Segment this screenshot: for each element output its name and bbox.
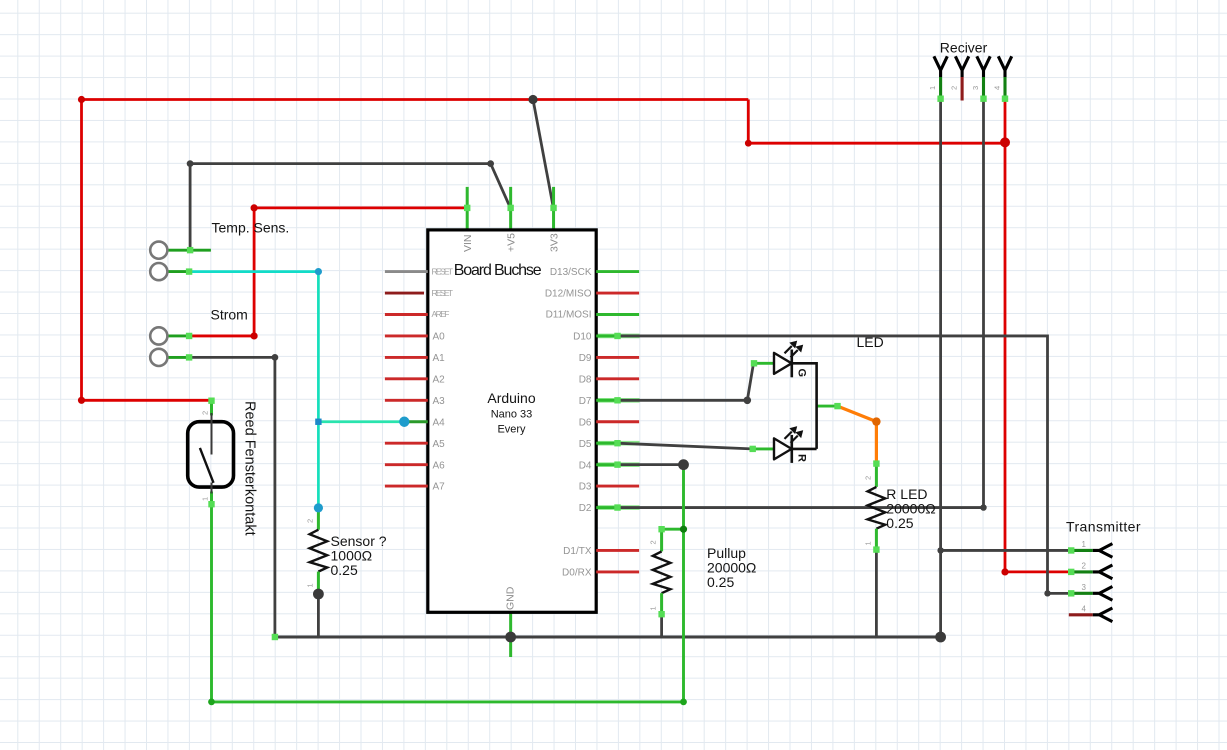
resistor R3 R LED 20000 ohm — [864, 463, 886, 551]
wire dark D7 to LED G anode — [596, 398, 639, 403]
svg-text:1: 1 — [649, 606, 658, 610]
transmitter pin 4 — [1069, 613, 1093, 616]
pin GND bottom stub — [509, 612, 512, 657]
wire dark D4 to junction — [596, 462, 639, 467]
connector J2 Strom circle 2 — [150, 349, 191, 366]
svg-text:Nano 33: Nano 33 — [491, 409, 533, 421]
connector J3 Reciver header — [928, 39, 1012, 100]
junction orange dot R LED corner — [872, 417, 880, 425]
junction dark dot ground bus at GND — [505, 632, 516, 643]
junction dark dot at +V5 wire corner — [487, 160, 494, 167]
junction green dot reed bottom corner — [208, 699, 215, 706]
svg-text:D6: D6 — [579, 417, 592, 428]
svg-text:D4: D4 — [579, 460, 592, 471]
svg-text:A7: A7 — [433, 482, 446, 493]
pin D6 stub — [596, 420, 639, 423]
wire dark 3V3 slant from red net — [533, 100, 553, 208]
svg-text:1: 1 — [928, 86, 937, 90]
wire dark D10 to transmitter pin3 — [596, 334, 639, 339]
pin D7 stub (connected) — [596, 399, 619, 402]
transmitter pin 3 — [1068, 592, 1093, 595]
svg-text:Every: Every — [497, 424, 526, 436]
junction dark dot on red net at 3V3 branch — [528, 95, 537, 104]
reed lead top — [211, 413, 213, 455]
pin 2 reed top — [210, 399, 213, 416]
wire cyan Temp.Sens pin2 horizontal — [191, 270, 319, 273]
svg-text:1: 1 — [1082, 540, 1087, 549]
pin AREF stub — [385, 313, 428, 316]
pin A0 stub — [385, 335, 428, 338]
svg-text:A0: A0 — [433, 332, 446, 343]
svg-text:A5: A5 — [433, 439, 446, 450]
wire dark receiver pin1 vertical to ground bus — [939, 100, 942, 637]
svg-text:Pullup: Pullup — [707, 545, 746, 561]
svg-text:0.25: 0.25 — [331, 562, 358, 578]
op board U1 Arduino Nano 33 Every (Board Buchse) — [428, 187, 596, 657]
svg-text:20000Ω: 20000Ω — [707, 559, 756, 575]
reed body — [188, 422, 234, 487]
wire cyan branch to A4 pin — [318, 420, 404, 423]
pin A3 stub — [385, 399, 428, 402]
receiver pin 1 fork — [934, 56, 947, 77]
pin D9 stub — [596, 356, 639, 359]
wire dark D2 to receiver pin3 — [596, 505, 639, 510]
wire green LED cathode branch — [817, 405, 838, 408]
svg-text:2: 2 — [864, 476, 873, 480]
pin RESET left stub (dark red) — [385, 292, 424, 295]
wire red bottom-left to reed switch pin 2 — [82, 399, 212, 402]
pin RESET left stub (gray) — [385, 270, 428, 273]
svg-text:1000Ω: 1000Ω — [331, 548, 373, 564]
svg-text:Strom: Strom — [211, 307, 248, 323]
pin D1/TX stub — [596, 549, 639, 552]
wire orange LED to R LED resistor — [838, 406, 877, 465]
svg-text:D3: D3 — [579, 482, 592, 493]
svg-text:D10: D10 — [573, 332, 592, 343]
svg-text:Board Buchse: Board Buchse — [454, 262, 542, 279]
svg-text:A6: A6 — [433, 460, 446, 471]
svg-text:1: 1 — [306, 583, 315, 587]
svg-text:1: 1 — [864, 541, 873, 545]
connector J4 Transmitter header — [1066, 519, 1141, 622]
pin 3V3 top stub — [552, 187, 555, 230]
svg-text:3: 3 — [971, 86, 980, 90]
svg-text:D0/RX: D0/RX — [562, 568, 592, 579]
pin A6 stub — [385, 463, 428, 466]
wire red top right jog down — [748, 100, 1005, 144]
junction cyan dot A4 pin — [399, 417, 409, 427]
pin D12/MISO stub — [596, 292, 639, 295]
pin A2 stub — [385, 377, 428, 380]
resistor R1 Sensor ? 1000 ohm — [306, 508, 328, 594]
pin D2 stub (connected) — [596, 506, 619, 509]
pin D0/RX stub — [596, 570, 639, 573]
svg-text:Transmitter: Transmitter — [1066, 519, 1141, 535]
connector J1 Temp. Sens. circle 1 — [150, 242, 211, 259]
node bright green terminal nubs — [186, 96, 1075, 641]
wire red Strom to VIN pin — [191, 208, 467, 336]
wire red VIN net left vertical — [80, 100, 83, 401]
junction dark dot D4 green net — [678, 459, 689, 470]
junction red dot transmitter pin2 corner — [1001, 568, 1008, 575]
svg-text:Arduino: Arduino — [487, 390, 535, 406]
resistor R2 Pullup 20000 ohm — [649, 528, 671, 616]
transmitter pin 2 — [1068, 570, 1093, 573]
junction dark dot D2 receiver pin3 — [980, 504, 986, 510]
svg-text:D13/SCK: D13/SCK — [550, 267, 592, 278]
svg-text:2: 2 — [201, 411, 210, 415]
wire dark sensor resistor to ground bus — [317, 594, 320, 637]
svg-text:2: 2 — [1082, 562, 1087, 571]
junction red dot right jog corner — [745, 140, 752, 147]
svg-text:1: 1 — [201, 497, 210, 501]
LED D2 red — [752, 427, 817, 463]
svg-text:D5: D5 — [579, 439, 592, 450]
svg-text:2: 2 — [306, 519, 315, 523]
svg-text:D11/MOSI: D11/MOSI — [546, 310, 592, 321]
wire dark D5 to LED R anode — [596, 441, 639, 446]
reed lead bottom — [211, 483, 213, 494]
receiver pin 4 fork — [998, 56, 1011, 77]
wire red receiver pin4 vertical — [1004, 100, 1007, 572]
pin D5 stub (connected) — [596, 442, 619, 445]
LED D1 green — [754, 341, 817, 449]
junction dark dot sensor resistor bottom — [313, 589, 324, 600]
svg-text:Temp. Sens.: Temp. Sens. — [212, 220, 290, 236]
svg-text:D2: D2 — [579, 503, 592, 514]
wire dark Temp.Sens pin1 up-over to +V5 — [190, 164, 510, 251]
svg-text:AREF: AREF — [432, 309, 450, 319]
svg-text:D12/MISO: D12/MISO — [545, 288, 592, 299]
wire dark receiver pin3 vertical — [982, 100, 985, 508]
junction cyan dot temp sens corner — [315, 268, 322, 275]
svg-text:4: 4 — [1082, 605, 1087, 614]
wire dark ground bus horizontal — [275, 636, 941, 639]
svg-text:GND: GND — [505, 586, 517, 610]
svg-text:A1: A1 — [433, 353, 446, 364]
reed blade — [200, 448, 214, 483]
svg-text:0.25: 0.25 — [707, 574, 734, 590]
connector J1 Temp. Sens. circle 2 — [150, 263, 191, 280]
svg-text:G: G — [796, 369, 808, 378]
junction dark dot transmitter pin3 corner — [1044, 590, 1050, 596]
svg-text:3V3: 3V3 — [549, 233, 561, 252]
pin A4 stub (green, connected) — [404, 420, 428, 423]
junction red dot VIN corner — [251, 204, 258, 211]
switch S1 Reed Fensterkontakt — [188, 399, 234, 508]
svg-text:RESET: RESET — [432, 266, 454, 276]
receiver pin 2 fork — [955, 56, 968, 77]
pin A7 stub — [385, 485, 428, 488]
board body — [428, 230, 596, 612]
svg-text:D7: D7 — [579, 396, 592, 407]
wire green pullup top to D4 net — [662, 528, 684, 531]
junction red dot bottom left corner — [78, 397, 85, 404]
pin A1 stub — [385, 356, 428, 359]
svg-text:2: 2 — [950, 86, 959, 90]
svg-text:+V5: +V5 — [506, 233, 518, 252]
wire red VIN net top horizontal — [82, 98, 749, 101]
pin D3 stub — [596, 485, 639, 488]
svg-text:A4: A4 — [433, 417, 446, 428]
pin A5 stub — [385, 442, 428, 445]
junction red dot top left corner — [78, 96, 85, 103]
svg-text:A3: A3 — [433, 396, 446, 407]
junction cyan square A4 branch — [315, 419, 321, 425]
pin D11/MOSI stub — [596, 313, 639, 316]
junction dark dot D7 wire corner — [744, 397, 752, 405]
wire dark R LED resistor to ground bus — [875, 551, 878, 638]
pin +V5 top stub — [509, 187, 512, 230]
junction red dot Strom corner — [251, 332, 258, 339]
pin D4 stub (connected) — [596, 463, 619, 466]
pin D8 stub — [596, 377, 639, 380]
svg-text:R: R — [796, 454, 808, 462]
junction dark dot ground bus right end — [935, 632, 946, 643]
svg-text:D1/TX: D1/TX — [563, 546, 592, 557]
svg-text:D9: D9 — [579, 353, 592, 364]
junction dark dot Strom wire corner — [272, 354, 279, 361]
junction dark dot at temp sens wire corner — [187, 160, 194, 167]
junction dark dot receiver pin1 transmitter branch — [937, 547, 943, 553]
svg-text:Sensor ?: Sensor ? — [331, 533, 387, 549]
pin VIN top stub — [466, 187, 469, 230]
junction green dot pullup top — [680, 526, 687, 533]
wire dark receiver pin1 branch to transmitter pin1 — [941, 549, 1068, 552]
svg-text:Reed Fensterkontakt: Reed Fensterkontakt — [242, 401, 258, 536]
svg-text:D8: D8 — [579, 375, 592, 386]
svg-text:4: 4 — [993, 86, 1002, 90]
svg-text:LED: LED — [857, 334, 884, 350]
svg-text:3: 3 — [1082, 583, 1087, 592]
connector J2 Strom circle 1 — [150, 327, 191, 344]
wire dark pullup resistor to ground bus — [660, 616, 663, 637]
svg-text:Reciver: Reciver — [940, 39, 988, 55]
junction green dot bottom green corner — [680, 699, 687, 706]
transmitter pin 1 — [1068, 549, 1093, 552]
svg-text:0.25: 0.25 — [886, 515, 913, 531]
pin D13/SCK stub — [596, 270, 639, 273]
svg-text:A2: A2 — [433, 375, 446, 386]
wire dark Strom pin2 down to ground bus — [191, 357, 275, 637]
junction red dot receiver pin4 — [1000, 137, 1010, 147]
junction cyan dot sensor resistor top — [314, 503, 323, 512]
svg-text:RESET: RESET — [432, 288, 454, 298]
receiver pin 3 fork — [977, 56, 990, 77]
svg-text:2: 2 — [649, 540, 658, 544]
wire red receiver pin4 to transmitter pin2 — [1005, 571, 1068, 574]
svg-text:VIN: VIN — [462, 234, 474, 252]
pin 1 reed bottom — [210, 492, 213, 508]
pin D10 stub (connected) — [596, 335, 619, 338]
wire green reed pin1 bottom loop to D4 junction — [212, 465, 684, 702]
wire cyan vertical to sensor resistor — [317, 272, 320, 508]
